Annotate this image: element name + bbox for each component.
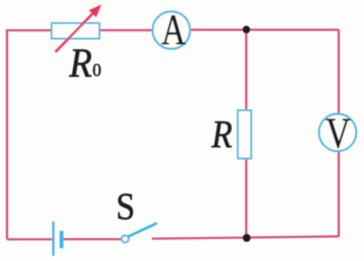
wire top middle segment (R0 to ammeter) [99,29,153,31]
voltmeter V [319,110,356,157]
battery (cell): short thick plate [60,231,64,248]
svg-text:V: V [326,110,351,157]
wire right side lower (voltmeter to bottom corner) [338,151,340,236]
resistor R [238,110,251,158]
wire bottom (battery to switch) [63,238,121,240]
label R0 [68,40,101,86]
wire middle branch upper (junction to R) [245,30,247,111]
switch S pivot circle [122,235,129,242]
wire bottom left (corner to battery) [7,238,52,240]
node bottom junction [243,234,251,242]
wire middle branch lower (R to bottom junction) [245,158,247,238]
arrow of variable resistor R0 [55,4,101,52]
svg-text:R: R [211,112,233,156]
wire right side upper (corner to voltmeter) [338,30,340,114]
wire top right segment (ammeter to top-right corner) [190,29,338,31]
node top junction [243,26,251,34]
switch S lever [128,224,156,237]
svg-text:0: 0 [93,60,102,80]
wire top left segment [6,29,52,31]
ammeter A [153,6,190,54]
wire left side [6,30,8,239]
svg-text:S: S [116,185,135,227]
svg-text:A: A [161,6,186,54]
battery (cell): long thin plate [52,222,54,256]
svg-text:R: R [68,40,92,86]
resistor R0 (variable rheostat body) [52,23,100,38]
wire bottom right (switch to bottom-right corner) [152,236,339,238]
